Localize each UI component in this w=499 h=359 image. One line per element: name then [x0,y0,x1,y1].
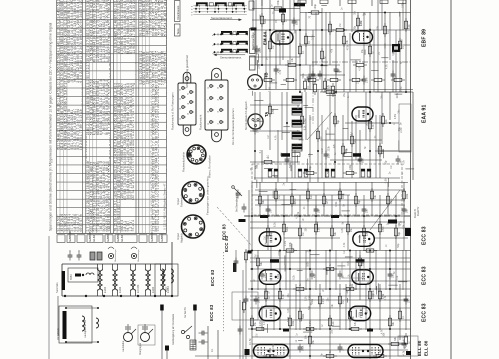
svg-text:470k: 470k [287,316,290,322]
svg-text:EM 84: EM 84 [263,31,268,45]
svg-text:U 123 U 456 0,4V Abgleich: U 123 U 456 0,4V Abgleich Stereo 47 [163,183,167,230]
svg-text:B250: B250 [70,274,73,280]
svg-text:4,7k: 4,7k [318,227,321,232]
svg-text:EL84: EL84 [92,235,96,242]
svg-text:100p: 100p [349,164,352,170]
svg-text:Spannungen und Strome (Gleichs: Spannungen und Strome (Gleichstrom) [in … [49,23,53,231]
svg-text:0,5M: 0,5M [269,87,272,92]
svg-text:Imput: Imput [176,233,180,240]
svg-text:4,7k: 4,7k [385,64,388,69]
svg-text:500k: 500k [334,114,337,120]
svg-text:4,7k: 4,7k [402,159,405,164]
svg-text:470k: 470k [346,44,349,50]
svg-text:Skalenlampe: Skalenlampe [138,249,140,262]
svg-text:Rockkopplung ein Drucktaste: Rockkopplung ein Drucktaste [172,313,175,345]
svg-text:8,2k: 8,2k [296,20,299,25]
svg-text:100p: 100p [353,25,356,31]
svg-text:50p: 50p [398,231,401,236]
svg-text:0,5M: 0,5M [304,119,307,124]
svg-text:4,7k: 4,7k [403,224,406,229]
svg-text:Sensortastenanz.: Sensortastenanz. [220,55,242,59]
svg-text:500k: 500k [302,313,305,319]
svg-text:Punkt 5V: Punkt 5V [417,206,420,216]
svg-text:220k: 220k [278,250,281,256]
svg-text:EAA 91: EAA 91 [422,104,428,123]
svg-text:8,2k: 8,2k [332,321,335,326]
svg-text:8,2k: 8,2k [310,194,313,199]
svg-text:EABC80: EABC80 [68,230,72,241]
svg-text:470k: 470k [360,20,363,26]
svg-text:ECC83: ECC83 [136,284,140,293]
svg-text:470k: 470k [366,230,369,236]
svg-text:EBF 89: EBF 89 [422,29,428,47]
svg-text:TB: TB [264,72,269,78]
svg-text:Imput: Imput [176,198,180,205]
svg-text:25u: 25u [253,45,256,50]
svg-text:8,2k: 8,2k [347,260,350,265]
svg-text:500k: 500k [354,138,357,144]
svg-text:4,7k: 4,7k [298,287,301,292]
svg-text:25u: 25u [358,234,361,239]
svg-text:25u: 25u [393,50,396,55]
svg-text:Drucktasten: Drucktasten [176,5,180,19]
svg-text:25u: 25u [367,280,370,285]
svg-text:4,7k: 4,7k [287,308,290,313]
svg-text:470k: 470k [335,201,338,207]
svg-text:500k: 500k [286,226,289,232]
svg-text:220k: 220k [292,320,295,326]
svg-text:ELL 80: ELL 80 [417,340,422,356]
svg-text:1M: 1M [270,210,273,213]
svg-text:Taste: Taste [176,28,180,35]
svg-text:EL84: EL84 [103,286,107,293]
svg-text:25u: 25u [350,227,353,232]
svg-text:1M: 1M [343,250,346,253]
svg-text:2,2M: 2,2M [321,148,324,153]
svg-text:2,2M: 2,2M [400,127,403,132]
svg-text:470k: 470k [272,108,275,114]
svg-text:ECC 83: ECC 83 [224,235,229,252]
svg-text:8,2k: 8,2k [297,104,300,109]
svg-text:Skalenlampe: Skalenlampe [115,249,117,262]
svg-text:500k: 500k [378,147,381,153]
svg-text:ECC 83: ECC 83 [209,304,214,321]
svg-text:248 943 98 8,3 207 80 77 8,5 7: 248 943 98 8,3 207 80 77 8,5 701 6,9 55 … [107,0,111,232]
svg-text:100p: 100p [390,198,393,204]
svg-text:Sensortastenanz.: Sensortastenanz. [211,16,233,20]
svg-text:0,5M: 0,5M [305,296,308,301]
svg-text:nur bei TA: nur bei TA [184,307,187,318]
svg-text:470k: 470k [264,287,267,293]
svg-text:25u: 25u [287,293,290,298]
svg-text:Netztrafo: Netztrafo [55,282,59,293]
svg-text:2,2M: 2,2M [289,158,292,163]
svg-text:Von der Einbauseite gesehen: Von der Einbauseite gesehen [231,108,235,145]
svg-text:500k: 500k [277,273,280,279]
svg-text:1M: 1M [390,165,393,168]
svg-text:4,7k: 4,7k [372,124,375,129]
svg-text:EL84: EL84 [120,235,124,242]
svg-text:4,7k: 4,7k [296,213,299,218]
svg-text:25u: 25u [361,48,364,53]
svg-text:50p: 50p [385,160,388,165]
svg-text:4,7k: 4,7k [279,69,282,74]
svg-text:2,2M: 2,2M [284,241,287,246]
svg-text:Lautstarke: Lautstarke [122,340,125,352]
svg-text:8,2k: 8,2k [402,335,405,340]
svg-text:Fassungen von unten gesehen: Fassungen von unten gesehen [206,176,210,215]
svg-text:220k: 220k [289,242,292,248]
svg-text:50p: 50p [327,169,330,174]
svg-text:25u: 25u [380,94,383,99]
svg-text:220k: 220k [327,145,330,151]
svg-text:ECC 83: ECC 83 [422,266,428,285]
svg-text:8,2k: 8,2k [385,119,388,124]
svg-text:4,7k: 4,7k [403,350,406,355]
svg-text:8,2k: 8,2k [274,222,277,227]
svg-text:EABC: EABC [106,234,110,242]
svg-text:ECC 83: ECC 83 [210,269,215,286]
svg-text:1M: 1M [278,196,281,199]
svg-text:2,2M: 2,2M [322,299,325,304]
svg-text:470k: 470k [277,0,280,6]
svg-text:25u: 25u [312,339,315,344]
svg-text:1M: 1M [256,334,259,337]
svg-text:25u: 25u [366,208,369,213]
svg-text:220k: 220k [396,92,399,98]
svg-text:1M: 1M [263,236,266,239]
svg-text:1M: 1M [272,46,275,49]
svg-text:Lautsprecher 5W: Lautsprecher 5W [84,319,87,338]
svg-text:500k: 500k [264,18,267,24]
svg-text:Ruckansicht d. Ro-Fassungen: Ruckansicht d. Ro-Fassungen [171,92,175,130]
svg-text:4,7k: 4,7k [261,305,264,310]
svg-text:4,7k: 4,7k [263,320,266,325]
svg-text:EABC8: EABC8 [150,232,154,242]
svg-text:4,7k: 4,7k [282,294,285,299]
svg-text:2,2M: 2,2M [366,78,369,83]
svg-text:Bei Drucktaste TA abgesch.: Bei Drucktaste TA abgesch. [245,100,248,130]
svg-text:8,2k: 8,2k [304,125,307,130]
svg-text:0,5M: 0,5M [394,114,397,119]
svg-text:25u: 25u [333,119,336,124]
svg-text:2,2M: 2,2M [259,321,262,326]
svg-text:Klangregler: Klangregler [139,343,142,355]
svg-text:1M: 1M [339,24,342,27]
svg-text:220k: 220k [406,193,409,199]
svg-text:Rohrenvoltm.: Rohrenvoltm. [180,191,184,207]
svg-text:1M: 1M [292,32,295,35]
svg-text:1M: 1M [267,135,270,138]
svg-text:100p: 100p [257,63,260,69]
svg-text:4,7k: 4,7k [359,65,362,70]
svg-text:50p: 50p [256,164,259,169]
svg-text:4,7k: 4,7k [275,135,278,140]
svg-text:Filter u. Ro-schalter: Filter u. Ro-schalter [208,155,212,178]
svg-text:4,7k: 4,7k [400,220,403,225]
svg-text:50p: 50p [309,165,312,170]
svg-text:50p: 50p [397,243,400,248]
svg-text:220k: 220k [359,311,362,317]
svg-text:ECC 83: ECC 83 [422,303,428,322]
svg-text:EABC: EABC [160,234,164,242]
svg-text:Punkt 30: Punkt 30 [414,208,417,218]
svg-text:470k: 470k [372,289,375,295]
svg-text:ELL 80: ELL 80 [424,340,429,356]
svg-text:8,2k: 8,2k [328,153,331,158]
svg-text:TA: TA [264,112,269,117]
svg-text:EL84: EL84 [151,286,155,293]
svg-text:Klingeltrafo: Klingeltrafo [57,327,60,340]
svg-text:500k: 500k [289,162,292,168]
svg-text:1M: 1M [302,233,305,236]
svg-text:25u: 25u [264,241,267,246]
svg-text:0,5M: 0,5M [385,178,388,183]
svg-text:25u: 25u [331,329,334,334]
svg-text:2,2M: 2,2M [309,321,312,326]
svg-text:ECC 83: ECC 83 [422,226,428,245]
svg-text:4,7k: 4,7k [341,228,344,233]
svg-text:EL84: EL84 [118,286,122,293]
svg-text:100p: 100p [402,2,405,8]
svg-text:2,2M: 2,2M [400,87,403,92]
svg-text:25u: 25u [408,298,411,303]
svg-text:Bei Stereobetrieb: Bei Stereobetrieb [236,193,239,212]
svg-text:2,2M: 2,2M [312,35,315,40]
svg-text:Flachenduchtritte: Flachenduchtritte [182,152,186,172]
svg-text:25u: 25u [343,92,346,97]
svg-text:100p: 100p [272,343,275,349]
svg-text:4,7k: 4,7k [343,242,346,247]
svg-text:ECC: ECC [164,286,168,292]
svg-text:500k: 500k [302,345,305,351]
svg-text:220k: 220k [342,193,345,199]
svg-text:4,7k: 4,7k [384,295,387,300]
svg-text:25u: 25u [309,294,312,299]
svg-text:50p: 50p [337,119,340,124]
svg-text:500k: 500k [302,73,305,79]
svg-text:25u: 25u [327,297,330,302]
svg-text:25u: 25u [254,321,257,326]
svg-text:8,2k: 8,2k [293,274,296,279]
svg-text:Ruckansicht: Ruckansicht [199,115,203,130]
svg-text:50p: 50p [358,199,361,204]
svg-text:Abgleich: Abgleich [180,232,184,243]
svg-text:500k: 500k [306,261,309,267]
svg-text:1M: 1M [342,301,345,304]
svg-text:100p: 100p [314,4,317,10]
svg-text:8,2k: 8,2k [400,38,403,43]
svg-text:1M: 1M [329,86,332,89]
svg-text:220k: 220k [258,47,261,53]
svg-text:8,2k: 8,2k [408,24,411,29]
svg-text:4,7k: 4,7k [363,109,366,114]
svg-text:0,5M: 0,5M [382,227,385,232]
svg-text:2,2M: 2,2M [255,254,258,259]
svg-text:0,1 5n: 0,1 5n [249,338,252,345]
